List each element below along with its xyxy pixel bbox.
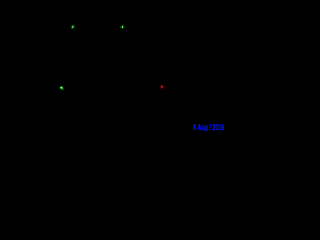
svg-text:X Aug / 2016: X Aug / 2016 xyxy=(193,123,225,132)
red star blob (lower right) xyxy=(160,84,165,90)
sky background xyxy=(0,0,225,135)
green star blob 2 (upper right) xyxy=(120,25,123,28)
starfield canvas xyxy=(0,0,225,135)
green star blob 1 (upper left) xyxy=(72,25,75,29)
green star blob 3 (lower left) xyxy=(60,86,64,89)
